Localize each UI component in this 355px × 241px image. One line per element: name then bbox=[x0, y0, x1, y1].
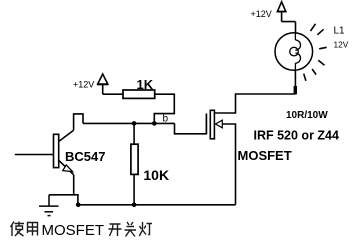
svg-text:MOSFET: MOSFET bbox=[238, 148, 292, 163]
caption: 使用 (drawn glyphs) bbox=[11, 222, 38, 237]
caption: 开关灯 (drawn glyphs) bbox=[109, 222, 153, 237]
mosfet U1 source arrow bbox=[215, 120, 222, 128]
ground bbox=[39, 195, 59, 216]
svg-text:10R/10W: 10R/10W bbox=[286, 110, 328, 121]
svg-text:1K: 1K bbox=[137, 77, 154, 92]
wire: drain to lamp bbox=[214, 94, 295, 113]
lamp L1 filament bbox=[290, 33, 301, 70]
transistor Q1 BC547 bbox=[54, 130, 74, 195]
wire: emitter jog to ground and rail bbox=[49, 195, 78, 205]
power +12V symbol (top right) bbox=[277, 2, 286, 12]
wire: collector bump bbox=[74, 114, 83, 130]
junction dot (10K top) bbox=[132, 121, 137, 126]
wire: +12V to 1K left bbox=[103, 93, 123, 95]
svg-text:L1: L1 bbox=[334, 25, 346, 36]
svg-text:BC547: BC547 bbox=[65, 149, 105, 164]
wire: source to bottom rail bbox=[222, 124, 235, 205]
wire: lamp top lead bbox=[282, 12, 296, 33]
junction dot (emitter to rail) bbox=[76, 203, 81, 208]
svg-text:+12V: +12V bbox=[73, 80, 94, 90]
resistor R2 10K bbox=[131, 144, 138, 174]
lamp L1 bulb bbox=[275, 33, 313, 71]
power +12V symbol (left, above 1K) bbox=[97, 74, 108, 94]
node b junction dot bbox=[152, 121, 157, 126]
wire: lamp bottom lead bbox=[294, 70, 296, 94]
svg-text:10K: 10K bbox=[143, 167, 169, 183]
resistor R1 1K bbox=[123, 90, 155, 98]
lamp L1 terminal mark bbox=[294, 86, 297, 94]
wire: bottom rail bbox=[78, 204, 236, 206]
junction dot (10K bottom) bbox=[132, 203, 137, 208]
wire: 1K right to node b (jog) bbox=[154, 94, 174, 123]
wire: base lead bbox=[15, 154, 54, 156]
light rays bbox=[304, 24, 327, 81]
svg-text:+12V: +12V bbox=[251, 9, 272, 19]
mosfet U1 gate bar bbox=[205, 114, 207, 135]
svg-text:MOSFET: MOSFET bbox=[42, 222, 105, 239]
wire: 10K bottom lead bbox=[133, 174, 135, 204]
mosfet U1 channel bar bbox=[210, 110, 214, 139]
wire: gate step bbox=[175, 123, 206, 133]
svg-text:IRF 520 or Z44: IRF 520 or Z44 bbox=[254, 128, 339, 142]
svg-text:12V: 12V bbox=[334, 39, 349, 49]
wire: base rail bbox=[83, 122, 175, 124]
wire: 10K top lead bbox=[133, 123, 135, 144]
